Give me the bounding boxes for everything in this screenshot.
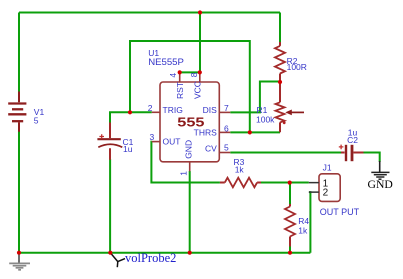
svg-text:GND: GND — [184, 140, 194, 159]
wire battery bottom lead — [18, 132, 20, 253]
svg-text:5: 5 — [224, 143, 229, 153]
svg-text:2: 2 — [323, 187, 329, 198]
svg-text:J1: J1 — [323, 162, 332, 172]
wire OUT down and to R3 — [151, 142, 220, 183]
wire TRIG to C1 — [110, 112, 152, 123]
ground (right, black) with GND label — [371, 161, 389, 179]
wire top rail V+ — [19, 12, 280, 14]
wire C1 bottom to rail — [109, 159, 111, 253]
svg-text:3: 3 — [150, 132, 155, 142]
svg-text:4: 4 — [168, 73, 178, 78]
svg-text:C2: C2 — [347, 135, 358, 145]
svg-text:CV: CV — [205, 144, 217, 154]
svg-text:OUT: OUT — [163, 137, 181, 147]
node C1/probe — [108, 251, 112, 255]
wire R2 top lead — [279, 13, 281, 43]
svg-text:8: 8 — [189, 72, 199, 77]
node THRS tie — [248, 130, 252, 134]
svg-text:5: 5 — [34, 115, 39, 125]
U1 pin stubs — [152, 72, 231, 171]
op-amp U1 555 IC box — [160, 82, 219, 162]
node IC GND rail — [188, 251, 192, 255]
svg-text:1k: 1k — [235, 165, 245, 175]
svg-text:6: 6 — [224, 124, 229, 134]
svg-text:GND: GND — [368, 178, 393, 191]
potentiometer R1 — [276, 82, 285, 132]
node R3/R4/J1 — [288, 181, 292, 185]
resistor R4 — [285, 204, 295, 247]
resistor R2 — [275, 42, 285, 81]
wire R3 to J1 pin1 — [261, 182, 309, 184]
R1 wiper arrow — [291, 111, 304, 113]
connector J1 — [319, 174, 340, 202]
svg-text:7: 7 — [224, 103, 229, 113]
svg-text:100k: 100k — [256, 115, 275, 125]
J1 pin stubs — [309, 183, 319, 193]
wire IC GND pin to rail — [189, 171, 191, 253]
node battery/ground — [17, 251, 21, 255]
wire DIS to R1 top junction — [230, 82, 280, 113]
svg-text:1: 1 — [179, 171, 189, 176]
wire R4 bottom lead — [289, 247, 291, 253]
svg-text:R4: R4 — [298, 216, 309, 226]
svg-text:THRS: THRS — [194, 128, 217, 138]
wire TRIG-THRS tie — [130, 41, 250, 132]
wire C2 to ground — [364, 153, 380, 163]
svg-text:1u: 1u — [123, 144, 133, 154]
node VCC top — [198, 10, 202, 14]
wire bottom ground rail — [19, 252, 310, 254]
wire CV to C2 — [230, 152, 341, 154]
svg-text:NE555P: NE555P — [148, 57, 184, 68]
node pin4 — [178, 70, 182, 74]
svg-text:100R: 100R — [287, 62, 307, 72]
svg-text:R1: R1 — [257, 105, 268, 115]
resistor R3 — [220, 178, 261, 188]
probe volProbe2 — [110, 253, 125, 268]
node pin8 — [198, 70, 202, 74]
svg-text:2: 2 — [148, 103, 153, 113]
battery V1 — [8, 92, 26, 132]
svg-text:DIS: DIS — [203, 105, 218, 115]
wire J1 pin2 riser — [309, 192, 310, 253]
capacitor C2 — [339, 145, 364, 162]
wire battery top lead — [18, 13, 20, 93]
node TRIG tie — [128, 110, 132, 114]
wire VCC branch to pins 4,8 — [180, 13, 200, 73]
svg-text:volProbe2: volProbe2 — [125, 251, 176, 265]
svg-text:OUT PUT: OUT PUT — [320, 207, 360, 217]
node R4 bottom — [288, 251, 292, 255]
ground (left, gray) — [9, 253, 30, 270]
wire THRS to R1 bottom — [230, 131, 280, 133]
wire R4 top lead — [289, 183, 291, 204]
capacitor C1 — [97, 123, 122, 160]
svg-text:VCC: VCC — [193, 81, 203, 99]
svg-text:1k: 1k — [298, 226, 308, 236]
node R2/R1/DIS — [278, 80, 282, 84]
svg-text:RST: RST — [175, 82, 185, 99]
svg-text:TRIG: TRIG — [163, 105, 183, 115]
